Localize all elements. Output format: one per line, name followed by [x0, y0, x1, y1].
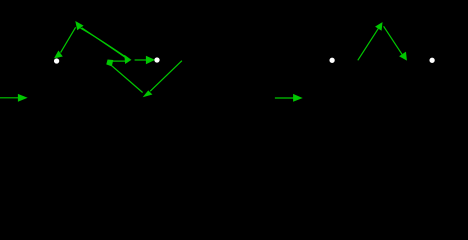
wire edge P1 to D1 shaft — [61, 27, 76, 52]
wire start arrow left shaft — [0, 97, 19, 99]
arrowhead into V3 — [145, 91, 152, 96]
wire edge up to right peak shaft — [358, 28, 379, 60]
arrowhead start arrow left — [19, 95, 26, 101]
arrowhead at right peak — [376, 23, 381, 29]
arrowhead at bottom right — [400, 53, 406, 60]
node D3 white point — [329, 58, 334, 63]
arrowhead into D2 — [147, 57, 154, 63]
arrowhead into D1 — [55, 52, 61, 58]
arrowhead into P1 — [76, 22, 82, 29]
wire edge down from right peak shaft — [384, 26, 402, 54]
node D1 white point — [54, 58, 59, 63]
wire edge J to D2 shaft — [135, 59, 148, 61]
node D4 white point — [429, 58, 434, 63]
wire edge L2 to V3 shaft — [112, 66, 143, 93]
wire edge J to L2 shaft — [113, 60, 127, 62]
wire start arrow right shaft — [275, 97, 294, 99]
arrowhead start arrow right — [294, 95, 301, 101]
arrowhead into J — [125, 56, 130, 63]
wire edge into V3 shaft — [150, 61, 182, 91]
arrowhead at L2 — [107, 60, 112, 65]
wire edge P1 to J shaft — [82, 28, 126, 58]
wire edge J to P1 shaft — [81, 28, 126, 57]
node D2 white point — [154, 57, 159, 62]
